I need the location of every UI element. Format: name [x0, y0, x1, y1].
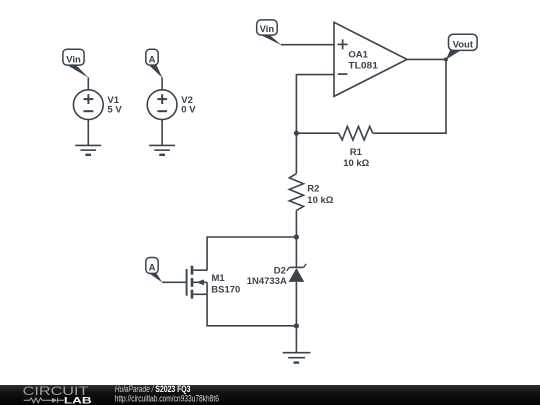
svg-text:5 V: 5 V [107, 104, 122, 115]
voltage source V1 5 V [73, 90, 122, 120]
svg-text:R1: R1 [350, 147, 363, 158]
svg-text:Vin: Vin [66, 54, 81, 65]
node Vin (op-amp input) [257, 20, 282, 45]
wire R2 down to top rail [295, 210, 297, 237]
svg-text:LAB: LAB [64, 395, 93, 405]
wire Vin to op-amp + input [281, 44, 334, 46]
transistor M1 BS170 (NMOS) [187, 266, 241, 299]
node Vout [444, 34, 477, 61]
svg-text:1N4733A: 1N4733A [247, 276, 287, 287]
svg-text:Vout: Vout [453, 40, 474, 51]
svg-text:Vin: Vin [260, 24, 275, 35]
svg-text:A: A [149, 263, 156, 274]
junction (top rail / R2 / D2) [294, 234, 299, 239]
wire A label to gate [162, 281, 187, 283]
node A (MOSFET gate) [146, 258, 163, 283]
op-amp OA1 TL081 [334, 22, 407, 96]
svg-text:10 kΩ: 10 kΩ [307, 195, 333, 206]
svg-text:0 V: 0 V [181, 104, 196, 115]
svg-text:OA1: OA1 [348, 50, 368, 61]
wire op-amp output to Vout corner [407, 58, 446, 60]
wire Vin label to V1 [87, 77, 89, 90]
ground (below V2) [149, 145, 175, 154]
svg-text:TL081: TL081 [348, 60, 378, 71]
node Vin (at V1) [63, 49, 89, 78]
svg-text:10 kΩ: 10 kΩ [343, 158, 369, 169]
wire D2 to bottom rail [295, 282, 297, 326]
ground (bottom) [283, 353, 311, 363]
junction (feedback node) [294, 131, 299, 136]
wire A label to V2 [161, 77, 163, 90]
svg-text:R2: R2 [307, 184, 319, 195]
wire op-amp - input to feedback node [296, 75, 334, 134]
svg-text:BS170: BS170 [211, 284, 240, 295]
node A (at V2) [146, 49, 163, 78]
svg-text:A: A [149, 54, 156, 65]
wire D2 top lead [295, 237, 297, 267]
svg-text:HulaParade / S2023 FQ3: HulaParade / S2023 FQ3 [115, 384, 191, 394]
wire top rail of M1/D2 block [207, 237, 296, 270]
wire V1 to ground [87, 119, 89, 145]
wire R1 to node [296, 132, 338, 134]
footer bar [0, 385, 540, 405]
svg-text:M1: M1 [212, 273, 226, 284]
resistor R2 10 kOhm [289, 174, 333, 211]
zener diode D2 1N4733A [247, 264, 306, 287]
wire Vout down to feedback [373, 59, 446, 133]
ground (below V1) [75, 145, 101, 154]
svg-text:http://circuitlab.com/cn933u78: http://circuitlab.com/cn933u78kh8t6 [115, 394, 219, 404]
wire V2 to ground [161, 119, 163, 145]
resistor R1 10 kOhm [339, 126, 373, 168]
svg-text:D2: D2 [274, 265, 286, 276]
junction (bottom rail / D2 / ground) [294, 323, 299, 328]
wire M1 source down to bottom rail [207, 294, 296, 326]
wire bottom rail to ground [295, 326, 297, 353]
voltage source V2 0 V [147, 90, 196, 120]
wire node down to R2 [295, 133, 297, 173]
CircuitLab logo: resistor-diode squiggle [24, 398, 64, 403]
